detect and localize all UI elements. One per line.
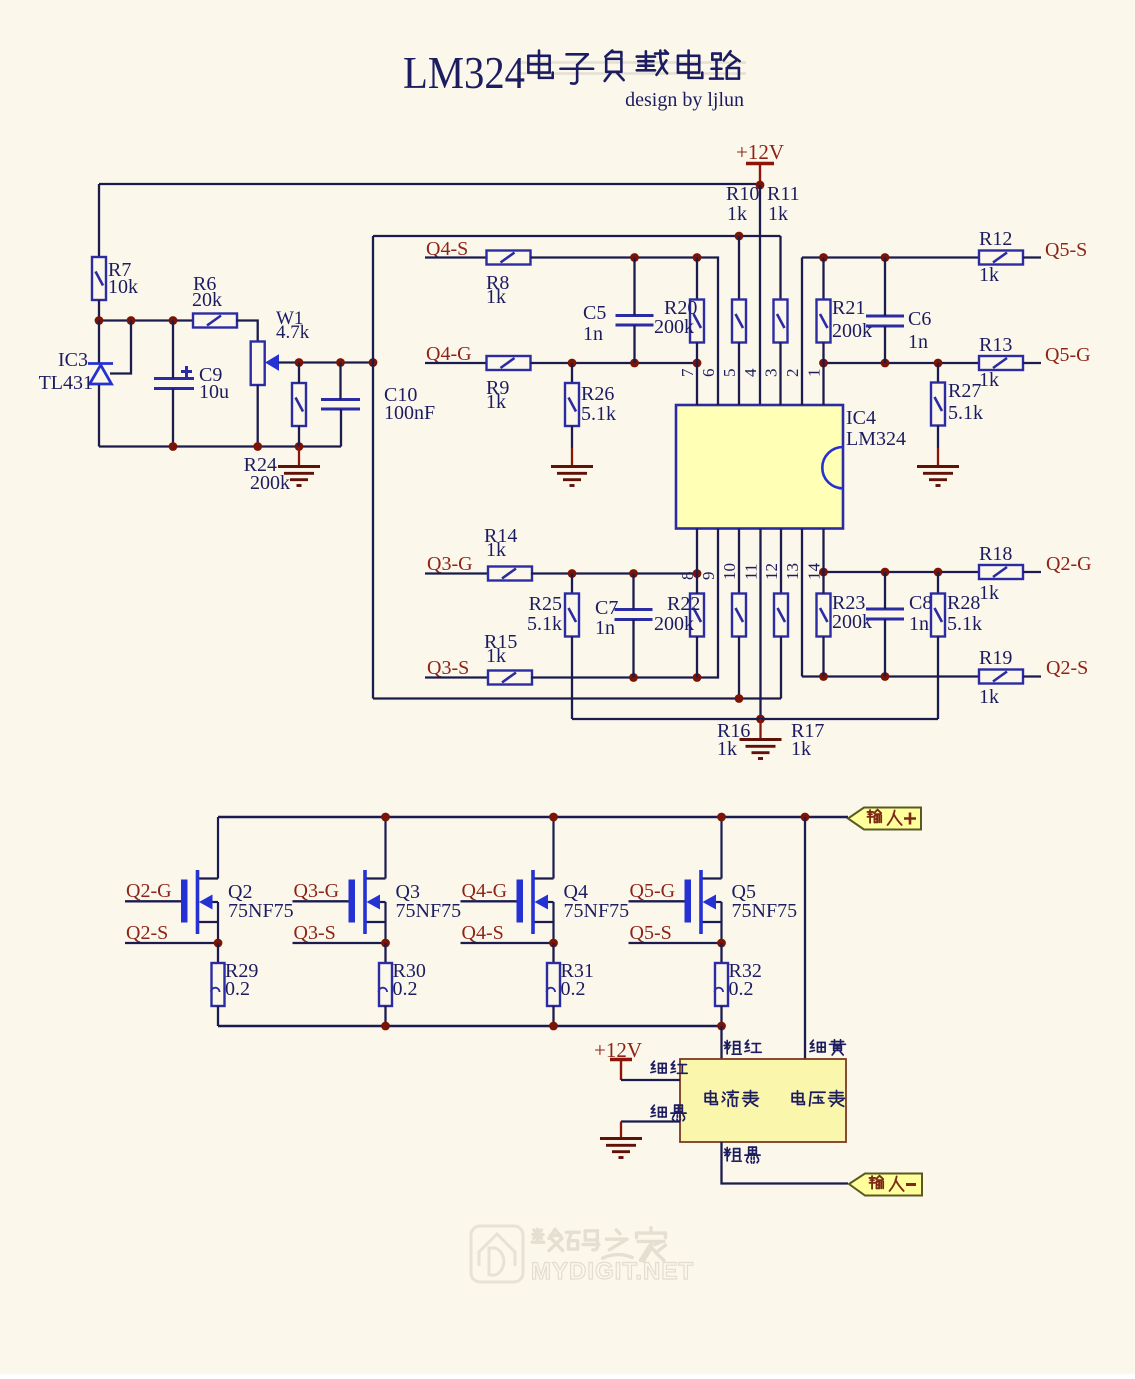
- svg-text:+12V: +12V: [736, 140, 784, 164]
- svg-text:75NF75: 75NF75: [732, 900, 798, 922]
- wire reference bus vertical: [372, 236, 374, 699]
- junction R7/TL431: [95, 316, 104, 325]
- svg-text:1k: 1k: [486, 539, 506, 561]
- junction R24 top: [295, 358, 304, 367]
- svg-text:R27: R27: [948, 380, 981, 402]
- label voltmeter 电压表: [792, 1091, 804, 1105]
- resistor R24: [292, 383, 306, 426]
- resistor R12: [979, 251, 1023, 265]
- wire thin-red to meter: [621, 1079, 680, 1081]
- junction C6 bottom: [881, 359, 890, 368]
- wire R23 bottom lead: [822, 637, 824, 677]
- junction R27 top: [934, 359, 943, 368]
- junction: [295, 442, 304, 451]
- svg-text:7: 7: [678, 368, 697, 377]
- wire C8 top lead: [884, 572, 886, 609]
- wire Q4-G row: [531, 362, 698, 364]
- junction Q5 source: [717, 939, 726, 948]
- wire R7 top: [98, 184, 100, 256]
- power +12V: [746, 164, 774, 186]
- wire to R31: [552, 943, 554, 963]
- svg-text:100nF: 100nF: [384, 402, 435, 424]
- svg-text:LM324: LM324: [846, 428, 906, 450]
- wire pin10 lead: [738, 529, 740, 594]
- junction Q3 source: [381, 939, 390, 948]
- wire C7 bottom lead: [632, 620, 634, 678]
- junction R21 top: [819, 253, 828, 262]
- svg-text:Q3-G: Q3-G: [427, 553, 473, 575]
- svg-text:Q3-S: Q3-S: [294, 922, 336, 944]
- resistor R26: [565, 383, 579, 426]
- wire R29 bottom: [217, 1006, 219, 1026]
- svg-text:200k: 200k: [654, 613, 694, 635]
- resistor R29 0.2: [211, 963, 225, 1006]
- junction ground node: [756, 715, 765, 724]
- wire thick-black to input-: [722, 1142, 849, 1184]
- svg-text:Q4-S: Q4-S: [462, 922, 504, 944]
- wire Q5-G row: [824, 362, 980, 364]
- svg-text:R22: R22: [667, 593, 700, 615]
- junction C8 bottom: [881, 672, 890, 681]
- svg-text:R28: R28: [947, 592, 980, 614]
- resistor R6: [193, 314, 237, 328]
- svg-text:6: 6: [699, 369, 718, 378]
- svg-text:2: 2: [783, 369, 802, 378]
- svg-text:R21: R21: [832, 297, 865, 319]
- resistor R20: [690, 300, 704, 343]
- svg-text:0.2: 0.2: [225, 978, 250, 1000]
- capacitor C8: [866, 609, 904, 619]
- ground: [278, 467, 320, 486]
- wire C9 top lead: [172, 321, 174, 379]
- wire Q2-S right: [1023, 675, 1041, 677]
- junction voltmeter tap: [801, 813, 810, 822]
- wire R16 bottom lead: [738, 637, 740, 699]
- wire R27 ground stub upper: [937, 426, 939, 449]
- wire C5 bottom lead: [633, 325, 635, 363]
- connector 输入- (input-): [849, 1174, 922, 1196]
- junction Q5 drain: [717, 813, 726, 822]
- svg-text:200k: 200k: [250, 472, 290, 494]
- wire to R30: [384, 943, 386, 963]
- junction R10 top: [735, 232, 744, 241]
- wire pin12 lead: [780, 529, 782, 594]
- label 细黄 thin-yellow: [810, 1040, 825, 1052]
- svg-text:design by ljlun: design by ljlun: [625, 89, 744, 111]
- wire reference bus top horizontal: [373, 235, 781, 237]
- wire R22 bottom lead: [696, 637, 698, 678]
- transistor Q4 75NF75: [517, 817, 554, 943]
- transistor Q2 75NF75: [181, 817, 218, 943]
- wire Q3-S left: [425, 676, 489, 678]
- wire R28 top lead: [937, 572, 939, 594]
- svg-text:R10: R10: [726, 183, 759, 205]
- watermark mydigit.net logo: [471, 1226, 523, 1282]
- svg-text:1k: 1k: [717, 738, 737, 760]
- junction Q4 drain: [549, 813, 558, 822]
- resistor R10: [732, 300, 746, 343]
- junction: [169, 442, 178, 451]
- svg-text:11: 11: [742, 564, 761, 580]
- wire R11 to pin3: [779, 343, 781, 406]
- svg-text:12: 12: [762, 563, 781, 580]
- svg-text:3: 3: [762, 369, 781, 378]
- resistor R17: [774, 594, 788, 637]
- junction R31 to source bus: [549, 1022, 558, 1031]
- capacitor C9: [154, 366, 194, 389]
- wire TL431 anode: [98, 385, 100, 447]
- junction wiper bus: [369, 358, 378, 367]
- power +12V (meter supply): [610, 1060, 632, 1081]
- svg-text:1k: 1k: [768, 203, 788, 225]
- junction pin7: [693, 359, 702, 368]
- junction C6 top: [881, 253, 890, 262]
- svg-text:IC3: IC3: [58, 349, 88, 371]
- wire thin-black to meter: [621, 1120, 680, 1122]
- wire C8 bottom lead: [884, 619, 886, 677]
- wire R17 bottom lead: [780, 637, 782, 699]
- wire TL431 cathode: [98, 321, 100, 363]
- junction C10 top: [336, 358, 345, 367]
- resistor R27: [931, 383, 945, 426]
- junction R30 to source bus: [381, 1022, 390, 1031]
- label 细黑 thin-black: [651, 1105, 666, 1117]
- wire R21 to pin1: [822, 343, 824, 406]
- junction C8 top: [881, 568, 890, 577]
- ground: [740, 740, 782, 759]
- svg-text:R25: R25: [529, 593, 562, 615]
- svg-text:5.1k: 5.1k: [581, 403, 616, 425]
- junction pin1: [819, 359, 828, 368]
- svg-text:1k: 1k: [486, 645, 506, 667]
- wire reference bottom rail: [99, 445, 341, 447]
- svg-text:1k: 1k: [791, 738, 811, 760]
- wire R32 bottom: [720, 1006, 722, 1026]
- junction C7 top: [629, 569, 638, 578]
- svg-text:C6: C6: [908, 308, 931, 330]
- faint watermark lines behind title: [516, 61, 746, 63]
- svg-text:1n: 1n: [595, 617, 615, 639]
- wire pin4 V+ column: [759, 185, 761, 405]
- wire source bus: [218, 1025, 722, 1028]
- svg-text:C5: C5: [583, 302, 606, 324]
- wire ammeter column (thick red): [720, 1026, 722, 1059]
- wire drain bus: [218, 816, 848, 819]
- wire R10 top lead: [738, 236, 740, 300]
- potentiometer W1: [251, 342, 279, 386]
- svg-text:5: 5: [720, 369, 739, 378]
- svg-text:Q2-S: Q2-S: [1046, 657, 1088, 679]
- svg-text:Q5-G: Q5-G: [1045, 344, 1091, 366]
- svg-text:LM324: LM324: [403, 47, 525, 98]
- junction: [253, 442, 262, 451]
- svg-text:1n: 1n: [583, 323, 603, 345]
- wire voltmeter sense column (thin yellow): [804, 817, 806, 1059]
- svg-text:Q3-G: Q3-G: [294, 880, 340, 902]
- wire R20 to pin7: [696, 343, 698, 406]
- junction +12V: [756, 181, 765, 190]
- wire C10 bottom lead: [340, 409, 342, 447]
- svg-text:5.1k: 5.1k: [948, 402, 983, 424]
- wire R26 ground stub upper: [571, 426, 573, 448]
- junction Q3 drain: [381, 813, 390, 822]
- svg-text:Q4-G: Q4-G: [426, 343, 472, 365]
- resistor R9: [487, 356, 531, 370]
- wire to R29: [217, 943, 219, 963]
- resistor R14: [488, 567, 532, 581]
- svg-text:1k: 1k: [979, 582, 999, 604]
- junction R26 top: [568, 359, 577, 368]
- svg-text:Q2-G: Q2-G: [1046, 553, 1092, 575]
- svg-text:MYDIGIT.NET: MYDIGIT.NET: [531, 1258, 694, 1285]
- svg-text:C7: C7: [595, 597, 618, 619]
- svg-text:200k: 200k: [654, 316, 694, 338]
- svg-text:Q2-S: Q2-S: [126, 922, 168, 944]
- junction REF: [127, 316, 136, 325]
- junction pin14: [819, 568, 828, 577]
- svg-text:C8: C8: [909, 592, 932, 614]
- wire pin11 ground column: [759, 529, 761, 720]
- TL431 IC3: [88, 364, 113, 385]
- resistor R22: [690, 594, 704, 637]
- svg-text:0.2: 0.2: [561, 978, 586, 1000]
- svg-text:1k: 1k: [979, 264, 999, 286]
- resistor R28: [931, 594, 945, 637]
- svg-text:IC4: IC4: [846, 407, 876, 429]
- wire ground stub: [759, 719, 761, 739]
- resistor R32 0.2: [715, 963, 729, 1006]
- wire Q4 gate: [461, 900, 517, 902]
- svg-text:4.7k: 4.7k: [276, 322, 310, 343]
- label 粗红 thick-red: [724, 1041, 741, 1055]
- svg-text:1n: 1n: [908, 331, 928, 353]
- svg-text:0.2: 0.2: [393, 978, 418, 1000]
- capacitor C5: [616, 316, 654, 326]
- wire Q3-G row: [531, 572, 697, 574]
- wire Q4-G left: [425, 362, 486, 364]
- wire C5 top lead: [633, 258, 635, 316]
- junction R16 bottom: [735, 694, 744, 703]
- svg-text:13: 13: [783, 563, 802, 580]
- junction Q2 source: [214, 939, 223, 948]
- resistor R13: [979, 356, 1023, 370]
- wire R27 ground stub: [937, 448, 939, 467]
- svg-text:R11: R11: [767, 183, 800, 205]
- svg-text:10u: 10u: [199, 381, 229, 403]
- meter box: ammeter & voltmeter: [680, 1059, 846, 1142]
- svg-text:Q4-G: Q4-G: [462, 880, 508, 902]
- capacitor C6: [866, 316, 904, 326]
- wire R6 to W1: [236, 321, 258, 342]
- svg-text:75NF75: 75NF75: [396, 900, 462, 922]
- transistor Q3 75NF75: [349, 817, 386, 943]
- junction R25 top: [568, 569, 577, 578]
- resistor R7: [92, 257, 106, 300]
- junction C9 top: [169, 316, 178, 325]
- wire R26 ground stub: [571, 448, 573, 467]
- wire R28 bottom lead: [937, 637, 939, 720]
- wire Q2-G right: [1023, 571, 1041, 573]
- wire R26 top lead: [571, 363, 573, 383]
- wire R23 top lead: [822, 572, 824, 594]
- resistor R25: [565, 594, 579, 637]
- wire Q4-S left: [425, 256, 486, 258]
- wire to R32: [720, 943, 722, 963]
- wire R20 top lead: [696, 258, 698, 300]
- resistor R23: [817, 594, 831, 637]
- svg-text:Q2-G: Q2-G: [126, 880, 172, 902]
- wire Q2 gate: [125, 900, 181, 902]
- title chinese: dian zi fu zai dian lu: [528, 51, 552, 78]
- wire Q5 source: [629, 942, 722, 944]
- wire R10 to pin5: [738, 343, 740, 406]
- wire Q3 source: [293, 942, 386, 944]
- junction R28 top: [934, 568, 943, 577]
- wire Q5 gate: [629, 900, 685, 902]
- junction Q4 source: [549, 939, 558, 948]
- wire pin2 column: [801, 258, 803, 406]
- svg-text:1k: 1k: [979, 369, 999, 391]
- svg-text:1k: 1k: [979, 686, 999, 708]
- label 粗黑 thick-black: [724, 1148, 741, 1162]
- svg-text:200k: 200k: [832, 611, 872, 633]
- wire Q5-S right: [1023, 256, 1041, 258]
- capacitor C7: [615, 610, 653, 620]
- junction pin8: [693, 569, 702, 578]
- svg-text:1: 1: [805, 369, 824, 378]
- wire pin14 lead: [822, 529, 824, 573]
- svg-text:5.1k: 5.1k: [947, 613, 982, 635]
- svg-text:TL431: TL431: [39, 372, 93, 394]
- transistor Q5 75NF75: [685, 817, 722, 943]
- svg-text:R13: R13: [979, 334, 1012, 356]
- wire Q3-G left: [425, 572, 489, 574]
- wire Q4-S to pin6: [531, 258, 719, 406]
- wire Q5-G right: [1023, 362, 1041, 364]
- svg-text:200k: 200k: [832, 320, 872, 342]
- svg-text:1k: 1k: [486, 391, 506, 413]
- label 细红 thin-red: [651, 1061, 666, 1073]
- resistor R16: [732, 594, 746, 637]
- wire Q2-S row: [802, 675, 980, 677]
- svg-text:1k: 1k: [727, 203, 747, 225]
- resistor R21: [817, 300, 831, 343]
- svg-text:Q3-S: Q3-S: [427, 657, 469, 679]
- ground: [551, 467, 593, 486]
- wire Q5-S row: [802, 256, 980, 258]
- wire R31 bottom: [552, 1006, 554, 1026]
- wire R24 top lead: [298, 363, 300, 384]
- resistor R30 0.2: [379, 963, 393, 1006]
- wire Q2-G row: [824, 571, 980, 573]
- op-amp IC4 LM324: [676, 405, 843, 529]
- svg-text:20k: 20k: [192, 289, 222, 311]
- connector 输入+ (input+): [848, 808, 921, 830]
- wire wiper row: [279, 361, 374, 363]
- svg-text:10k: 10k: [108, 276, 138, 298]
- ground: [600, 1139, 642, 1158]
- wire pin8 lead: [696, 529, 698, 574]
- svg-text:1n: 1n: [909, 613, 929, 635]
- wire Q3 gate: [293, 900, 349, 902]
- svg-text:R26: R26: [581, 383, 614, 405]
- wire Q4 source: [461, 942, 554, 944]
- svg-text:1k: 1k: [486, 286, 506, 308]
- resistor R19: [979, 670, 1023, 684]
- wire C9 bottom lead: [172, 389, 174, 447]
- watermark 数码之家: [532, 1229, 562, 1250]
- wire R7 bottom: [98, 300, 100, 321]
- wire R11 top lead: [779, 236, 781, 300]
- capacitor C10: [321, 400, 360, 410]
- junction C5 bottom: [630, 359, 639, 368]
- wire pin13 column: [801, 529, 803, 677]
- svg-text:4: 4: [741, 368, 760, 377]
- junction R23 bottom: [819, 672, 828, 681]
- resistor R15: [488, 671, 532, 685]
- ground: [917, 467, 959, 486]
- wire R21 top lead: [822, 258, 824, 300]
- junction C5 top: [630, 253, 639, 262]
- resistor R11: [774, 300, 788, 343]
- wire W1 bottom: [257, 385, 259, 447]
- svg-text:R19: R19: [979, 647, 1012, 669]
- wire Q2 source: [125, 942, 218, 944]
- svg-text:9: 9: [699, 572, 718, 581]
- resistor R8: [487, 251, 531, 265]
- svg-text:75NF75: 75NF75: [564, 900, 630, 922]
- wire TL431 ref: [110, 321, 131, 374]
- svg-text:75NF75: 75NF75: [228, 900, 294, 922]
- wire R22 top lead: [696, 574, 698, 594]
- junction R20 top: [693, 253, 702, 262]
- svg-text:Q5-S: Q5-S: [630, 922, 672, 944]
- wire ground stub: [620, 1122, 622, 1139]
- label ammeter 电流表: [705, 1091, 717, 1105]
- svg-text:0.2: 0.2: [729, 978, 754, 1000]
- resistor R31 0.2: [547, 963, 561, 1006]
- wire R27 top lead: [937, 363, 939, 383]
- wire R24 bottom lead: [298, 426, 300, 447]
- wire C6 top lead: [884, 258, 886, 317]
- svg-text:5.1k: 5.1k: [527, 613, 562, 635]
- svg-text:+12V: +12V: [594, 1038, 642, 1062]
- wire +12V feedback top rail: [99, 183, 760, 185]
- junction R22 bottom: [693, 673, 702, 682]
- wire C7 top lead: [632, 574, 634, 610]
- wire R25 top lead: [571, 574, 573, 594]
- junction R32 to source bus: [717, 1022, 726, 1031]
- wire reference bus bottom horizontal: [373, 697, 781, 699]
- svg-text:Q5-S: Q5-S: [1045, 239, 1087, 261]
- wire C6 bottom lead: [884, 326, 886, 363]
- wire R30 bottom: [384, 1006, 386, 1026]
- wire Q3-S to pin9: [531, 529, 718, 678]
- wire ground rail: [572, 718, 938, 720]
- svg-text:R18: R18: [979, 543, 1012, 565]
- resistor R18: [979, 565, 1023, 579]
- wire C10 top lead: [339, 363, 341, 400]
- wire R25 bottom to ground rail: [571, 637, 573, 720]
- svg-text:10: 10: [720, 563, 739, 580]
- svg-text:Q5-G: Q5-G: [630, 880, 676, 902]
- wire reference node row: [99, 319, 194, 321]
- junction C7 bottom: [629, 673, 638, 682]
- svg-text:R12: R12: [979, 228, 1012, 250]
- wire to ground stub: [298, 447, 300, 467]
